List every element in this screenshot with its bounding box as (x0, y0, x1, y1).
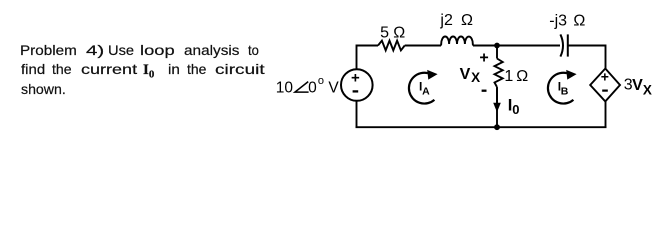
svg-text:Ω: Ω (393, 24, 405, 41)
label 3Vx (624, 77, 652, 98)
voltage source VS1 minus mark (353, 90, 359, 92)
svg-text:V: V (460, 66, 471, 83)
svg-text:0: 0 (308, 80, 317, 97)
resistor R2 1Ω zigzag (495, 59, 503, 88)
label IA (419, 80, 430, 98)
svg-text:0: 0 (512, 102, 519, 117)
capacitor C1 right plate (567, 34, 569, 56)
svg-text:Ω: Ω (461, 12, 473, 29)
wire bottom (356, 126, 607, 128)
label 10∠0° V (276, 75, 340, 97)
angle symbol of source label (295, 82, 309, 93)
svg-text:+: + (351, 69, 360, 86)
current arrow I0 (493, 88, 501, 112)
svg-text:V: V (632, 77, 643, 94)
loop current arrow IA head (427, 70, 437, 80)
svg-text:o: o (318, 75, 324, 87)
problem statement line 2 (21, 62, 45, 76)
svg-text:B: B (561, 86, 569, 98)
svg-text:5: 5 (380, 24, 389, 41)
dependent source E1 minus mark (602, 89, 608, 91)
svg-text:A: A (422, 86, 430, 98)
dependent source E1 3Vx diamond (590, 69, 620, 102)
label - of Vx (482, 90, 487, 92)
svg-text:10: 10 (276, 80, 294, 97)
label 1 Ω (504, 68, 528, 85)
svg-text:X: X (471, 70, 480, 85)
loop current arrow IB head (566, 70, 576, 80)
label j2 Ω (439, 12, 473, 29)
node junction bottom (494, 124, 500, 130)
wire middle branch (496, 46, 498, 128)
wire top (357, 45, 606, 47)
svg-text:Ω: Ω (573, 13, 585, 30)
label IB (558, 80, 569, 98)
label Vx (460, 66, 481, 85)
svg-text:X: X (643, 82, 652, 97)
voltage source VS1 circle (341, 69, 373, 101)
loop current arrow IA arc (409, 73, 434, 104)
capacitor C1 left curved plate (560, 34, 563, 56)
inductor L1 j2Ω coils (441, 37, 473, 46)
svg-text:-j3: -j3 (549, 13, 567, 30)
label 5 Ω (380, 24, 405, 41)
svg-text:j2: j2 (439, 12, 453, 29)
node junction top (494, 43, 500, 49)
svg-text:+: + (601, 68, 609, 84)
loop current arrow IB arc (548, 73, 573, 104)
resistor R1 5Ω zigzag (378, 41, 405, 51)
problem statement line 3 (21, 82, 66, 96)
svg-text:1: 1 (504, 68, 513, 85)
wire right (605, 45, 607, 129)
label I0 (508, 96, 520, 117)
problem statement line 1 (20, 43, 77, 57)
svg-text:+: + (479, 50, 488, 67)
svg-text:Ω: Ω (516, 68, 528, 85)
wire left (356, 45, 358, 129)
svg-text:V: V (328, 80, 339, 97)
label -j3 Ω (549, 13, 585, 30)
